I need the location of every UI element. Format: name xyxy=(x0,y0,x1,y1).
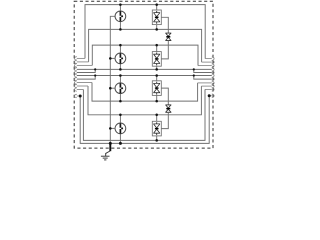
TVS suppressor U2 (boxed bidirectional zener) xyxy=(152,45,161,69)
terminal 1' right xyxy=(212,57,214,60)
junction line5 tap right xyxy=(193,74,195,76)
diode D12 (bidirectional suppressor between pairs 1-2) xyxy=(165,33,171,40)
TVS suppressor U4 (boxed bidirectional zener) xyxy=(152,115,161,141)
junction U2 top on line3 xyxy=(155,44,158,47)
wire terminal 2 left stub xyxy=(77,61,89,63)
ground symbol (earth) xyxy=(101,151,110,160)
wire line8 (channel 4 bottom) xyxy=(83,89,205,140)
terminal 1 left xyxy=(75,57,77,60)
TVS suppressor U1 (boxed bidirectional zener) xyxy=(152,5,161,30)
wire U3 mid tap to D34 xyxy=(161,88,168,105)
terminal 9' right xyxy=(212,84,214,87)
junction line4 tap right xyxy=(193,68,195,70)
wire terminal 9 left stub xyxy=(77,85,88,87)
terminal 6 left xyxy=(75,74,77,77)
junction F1 bottom on line2 xyxy=(119,28,122,31)
junction U4 top on line7 xyxy=(155,114,158,117)
terminal 7' right xyxy=(212,77,214,80)
terminal 2' right xyxy=(212,60,214,63)
wire line5 tap right xyxy=(194,76,212,80)
wire D12 to U2 mid tap xyxy=(161,41,168,59)
gas discharge tube F3 (3-electrode) xyxy=(110,76,125,102)
junction F2 centre tap on earth riser xyxy=(109,57,112,60)
terminal 4' right xyxy=(212,68,214,71)
junction U4 bottom on line8 xyxy=(155,139,158,142)
terminal 7 left xyxy=(75,77,77,80)
wire line4 tap right xyxy=(194,69,212,72)
earth terminal dot left xyxy=(79,95,82,98)
enclosure dashed outline xyxy=(74,1,213,148)
earth terminal dot right xyxy=(208,94,211,97)
junction U1 bottom on line2 xyxy=(155,28,158,31)
wire line4 tap left xyxy=(77,69,95,72)
gas discharge tube F4 (3-electrode) xyxy=(110,115,125,144)
junction U3 bottom on line6 xyxy=(155,100,158,103)
wire line3 (channel 2 top) xyxy=(92,45,198,66)
junction F2 top on line3 xyxy=(119,44,122,47)
terminal 6' right xyxy=(212,74,214,77)
junction F1 top on line1 xyxy=(119,3,122,6)
wire D34 to U4 mid tap xyxy=(161,112,168,128)
gas discharge tube F2 (3-electrode) xyxy=(110,45,125,69)
wire line1 (channel 1 top) xyxy=(85,5,205,59)
wire terminal 1' right stub xyxy=(205,58,212,60)
wire line5 (channel 3 top, through line) xyxy=(77,75,212,77)
ground lead (thick) xyxy=(109,143,111,151)
terminal 5' right xyxy=(212,71,214,74)
junction F2 bottom on line4 xyxy=(119,68,122,71)
wire line4 (channel 2 bottom, through line) xyxy=(77,68,212,70)
diode D34 (bidirectional suppressor between pairs 3-4) xyxy=(165,105,171,112)
junction U1 top on line1 xyxy=(155,3,158,6)
terminal 10' right xyxy=(212,88,214,91)
TVS suppressor U3 (boxed bidirectional zener) xyxy=(152,76,161,102)
wire line7 (channel 4 top) xyxy=(88,86,201,115)
junction F3 top on line5 xyxy=(119,74,122,77)
wire terminal 3' right stub xyxy=(198,65,212,67)
terminal 3' right xyxy=(212,64,214,67)
earth terminal left xyxy=(75,94,77,97)
junction F4 bottom on ground bus xyxy=(119,142,122,145)
junction F4 top on line7 xyxy=(119,114,122,117)
wire terminal 1 left stub xyxy=(77,57,85,59)
wire earth terminal left stub xyxy=(77,95,80,97)
wire terminal 8' right stub xyxy=(198,82,212,84)
wire ground riser (vertical earth bus) xyxy=(110,16,115,143)
wire earth terminal right stub xyxy=(209,95,212,97)
wire line2 (channel 1 bottom) xyxy=(89,29,202,62)
junction line5 tap left xyxy=(94,74,96,76)
terminal 5 left xyxy=(75,71,77,74)
wire U1 mid tap to D12 xyxy=(161,17,168,33)
wire terminal 2' right stub xyxy=(202,61,212,63)
junction U3 top on line5 xyxy=(155,74,158,77)
wire line6 (channel 3 bottom) xyxy=(92,83,198,102)
junction F4 centre tap on earth riser xyxy=(109,127,112,130)
terminal 4 left xyxy=(75,68,77,71)
terminal 8' right xyxy=(212,81,214,84)
wire terminal 3 left stub xyxy=(77,64,93,66)
junction earth riser on ground bus xyxy=(109,142,112,145)
junction U2 bottom on line4 xyxy=(155,68,158,71)
earth terminal right xyxy=(212,94,214,97)
terminal 8 left xyxy=(75,81,77,84)
wire terminal 10 left stub xyxy=(77,89,84,91)
terminal 2 left xyxy=(75,60,77,63)
terminal 3 left xyxy=(75,64,77,67)
junction line4 tap left xyxy=(94,68,96,70)
wire line5 tap left xyxy=(77,76,95,80)
wire terminal 8 left stub xyxy=(77,82,92,84)
wire ground bus bottom xyxy=(80,96,209,144)
terminal 9 left xyxy=(75,84,77,87)
wire terminal 10' right stub xyxy=(205,88,212,90)
junction F3 centre tap on earth riser xyxy=(109,87,112,90)
gas discharge tube F1 (3-electrode) xyxy=(115,5,126,30)
wire terminal 9' right stub xyxy=(201,85,211,87)
terminal 10 left xyxy=(75,88,77,91)
junction F3 bottom on line6 xyxy=(119,100,122,103)
